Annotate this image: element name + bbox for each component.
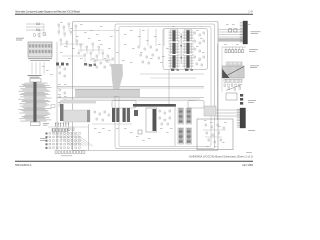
component small L3 [59,72,60,74]
capacitor bank C0510-C0515 [225,47,244,53]
component small U2x4 [194,40,195,42]
wire to J0551 3 [216,115,240,117]
IC section box outline [163,29,208,70]
component dark under U0201 [171,69,174,71]
component small A2 [211,126,212,128]
connector J0500 ladder pins [179,109,183,123]
component small A5 [206,132,207,134]
wire bus horizontal B [57,87,204,89]
box right of band [188,101,204,109]
bus ribbon band [218,38,243,41]
shaded region flex stem [114,90,119,97]
component small U2x12 [196,63,197,65]
component small K5 [140,54,141,56]
svg-text:Schematics, Component Location: Schematics, Component Location Diagrams,… [15,10,81,14]
IC U0301 dark half [153,109,157,131]
footer rule [15,160,253,162]
component small M21 [94,60,95,62]
shaded box dark edge [87,110,90,122]
wire net row 4 [90,59,112,61]
connector J0511 outline [186,128,192,144]
connector J0401 bottom label [43,122,49,125]
component small M25 [88,64,89,66]
component small B1 [159,110,160,112]
component small M5 [58,31,59,33]
component small M13 [92,43,93,45]
connector J0501 outline [186,108,192,124]
component small A1 [205,124,206,126]
connector J0401 top box [30,79,41,82]
component small M10 [76,40,77,42]
label J0551 [248,129,255,132]
keypad matrix cells [49,133,80,149]
component small A4 [223,127,224,129]
shaded box lower-left [64,110,91,122]
capacitor C0402 [38,34,40,36]
IC U0301 outline [146,108,157,132]
connector P0502 strip lower [224,79,242,82]
component small M19 [102,52,103,54]
connector P0502 strip header [226,62,242,65]
connector bar pair P0401a [112,108,115,122]
wire matrix horizontal [48,126,88,128]
component dark U0302 [134,110,138,116]
component small U2x2 [199,34,200,36]
ribbon band top edge [75,88,140,90]
component small M4 [75,25,76,27]
wire to R cluster 3 [26,29,44,31]
component small U2x7 [194,48,195,50]
connector J0510 ladder pins [179,129,183,143]
component small L6 [64,92,65,94]
connector J0401 body [33,82,36,122]
component small U2x8 [199,50,200,52]
component small K1 [138,46,139,48]
shield box outline 2 [115,24,215,149]
keypad matrix left pads [46,133,48,149]
component small L1 [59,66,60,68]
wire vertical IC drop [168,70,170,104]
component small M12 [86,46,87,48]
component small M16 [84,54,85,56]
transistor Q0401 [43,33,46,36]
wire net audio 1 [203,129,226,131]
component small L7 [59,96,60,98]
header rule [15,13,253,15]
connector J0511 ladder pins [187,129,191,143]
component small A8 [208,139,209,141]
shaded block right of connectors [204,106,216,116]
capacitor C0401 [34,34,36,36]
component dark under U0202 [185,69,188,71]
component small M2 [63,26,64,28]
component small N1 [94,111,95,113]
bus bar dark [133,104,176,107]
component small U2x9 [194,56,195,58]
connector J0401 bottom box [31,122,41,126]
component small A3 [217,124,218,126]
wire IC row [140,73,204,75]
resistor R0402 [37,29,40,31]
component small L5 [59,89,60,91]
dark component D1 row [56,63,59,66]
connector J0401 header label [28,74,42,77]
wire to J0551 1 [216,109,240,111]
box below band [112,101,136,109]
op-amp U0202 pins [183,31,194,67]
component small K7 [152,54,153,56]
label under matrix [40,137,47,140]
connector J0402 body [28,42,52,57]
dark component bank right [240,94,243,97]
label P0502 [250,65,259,68]
component small K8 [158,57,159,59]
component small U2x1 [194,32,195,34]
component small N5 [96,118,97,120]
component small L4 [64,75,65,77]
wire under connector bars [92,123,132,125]
component small B4 [159,117,160,119]
audio section box outline [197,119,233,150]
connector bar pair P0401b [123,108,126,122]
label under matrix pads [61,155,72,158]
connector J0510 outline [178,128,184,144]
component small K10 [148,62,149,64]
connector J0500 outline [178,108,184,124]
component small N2 [99,113,100,115]
component small M3 [68,23,69,25]
wire vertical center-bottom [174,104,176,146]
svg-text:6864110R02-A: 6864110R02-A [15,163,32,167]
component small M14 [98,46,99,48]
component small M9 [66,41,67,43]
component small U2x5 [199,42,200,44]
wire net row 5 [73,30,116,32]
label J0103 net names [251,30,261,33]
component small U2x13 [201,64,202,66]
IC column gaps [170,42,178,43]
component small L8 [64,100,65,102]
box U0503 outline [226,93,237,100]
ribbon band bottom edge [75,95,140,97]
wire stub set left mid [59,26,99,51]
resistor R0401 [37,23,40,25]
wire vertical trunk left [56,42,58,150]
connector J0551 body [240,108,246,128]
wire vertical chains mid-left [59,25,109,63]
label box lower-left [51,105,55,108]
component small L2 [64,68,65,70]
wire IC row 2 [150,77,196,79]
connector J0402 label [28,57,52,60]
connector J0402 pin row 1 [29,44,51,47]
component small N6 [102,119,103,121]
svg-text:HUE4040A (VOCON) Board Schemat: HUE4040A (VOCON) Board Schematic (Sheet … [189,154,253,158]
component small K6 [146,56,147,58]
component small M27 [104,66,105,68]
component small L9 [59,104,60,106]
component small B7 [161,123,162,125]
tiny annotation specks [42,22,251,147]
component small B8 [167,123,168,125]
shaded strip lower-left [60,100,96,104]
component box C0320 [138,130,142,134]
keypad matrix bottom pads [55,151,85,154]
component small N4 [108,114,109,116]
wire net audio 2 [205,136,222,138]
strip between ICs [181,33,182,64]
component small K2 [144,48,145,50]
component small U2x11 [203,56,204,58]
component small M11 [80,44,81,46]
connector J0501 ladder pins [187,109,191,123]
resistor R0111 [234,29,237,32]
component small N3 [104,111,105,113]
wire vertical right rail [217,44,219,120]
component small M22 [100,62,101,64]
wire cap row top [222,46,246,48]
shield box outline outer [73,22,219,151]
component small M28 [110,64,111,66]
component small M15 [78,52,79,54]
component small M1 [58,24,59,26]
wire vertical right rail 2 [221,47,223,92]
component small M26 [96,66,97,68]
connector P0502 hatched body [222,66,244,78]
wire bus horizontal D [62,98,200,100]
component small M8 [60,39,61,41]
component small M18 [96,55,97,57]
wire bus horizontal A [57,86,204,88]
wire drop columns above ICs [140,29,164,47]
shield box outline 3 [119,27,211,147]
connector P0502 diagonal edge [223,67,244,78]
connector J0402 pin row 2 [29,50,51,53]
test point pins TP row [55,123,70,127]
wire drop A [43,24,45,33]
wire bus to J0103 4 [218,36,243,38]
wire drops under J0402 [32,62,44,75]
component small B5 [164,119,165,121]
wire to J0551 2 [216,112,240,114]
op-amp U0202 body [186,30,189,68]
label DISPLAY FLEX [16,37,24,40]
connector P0502 dark corner [222,69,230,79]
component small M7 [70,31,71,33]
connector J0401 pin labels [18,83,51,122]
component small M6 [64,33,65,35]
connector J0551 pins [237,110,240,128]
label right lower [248,99,256,102]
shaded region flex tail [111,64,123,90]
wire bus to J0103 3 [218,34,243,36]
component small K4 [156,49,157,51]
component small U2x10 [199,58,200,60]
svg-text:1-9: 1-9 [248,9,253,13]
resistor R0110 [229,29,232,32]
component small B6 [169,117,170,119]
component small M23 [106,60,107,62]
wire to R cluster 1 [26,23,44,25]
component small A10 [220,139,221,141]
op-amp U0201 pins [169,31,180,67]
component dark bar lower-left [60,104,64,121]
wire bus horizontal C [57,97,204,99]
connector P0503 cluster [224,84,242,91]
wire net row 1 [60,43,84,45]
op-amp U0202 outline [185,30,192,69]
svg-text:July 7, 2003: July 7, 2003 [242,163,254,167]
wire drop B [39,30,41,38]
label cap bank [249,48,258,51]
component small U2x6 [203,40,204,42]
wire to R cluster 2 [26,26,44,28]
connector J0450 hatch strip [52,129,68,132]
op-amp U0201 body [172,30,175,68]
component small A6 [212,134,213,136]
connector J0103 pins [240,23,243,43]
wire net row 3 [62,55,84,57]
component small near strip [68,128,70,131]
revision dash right [246,152,252,154]
wire bus to J0103 2 [218,31,243,33]
wire bus to J0103 1 [218,29,243,31]
wire net row 2 [78,49,104,51]
component small M17 [90,52,91,54]
keypad matrix diagonal lines [52,132,93,146]
component small A9 [214,141,215,143]
dark component D2 row [84,63,87,66]
component small B2 [164,112,165,114]
connector J0103 body [243,21,248,44]
component small U2x3 [203,32,204,34]
component small K9 [142,61,143,63]
component small A7 [218,132,219,134]
component small K3 [150,46,151,48]
component small M20 [107,55,108,57]
component small M24 [112,58,113,60]
component small B3 [169,110,170,112]
wire matrix vertical [88,124,90,151]
wire bus horizontal E [70,100,196,102]
op-amp U0201 outline [171,30,178,69]
shaded ribbon band [75,89,140,96]
